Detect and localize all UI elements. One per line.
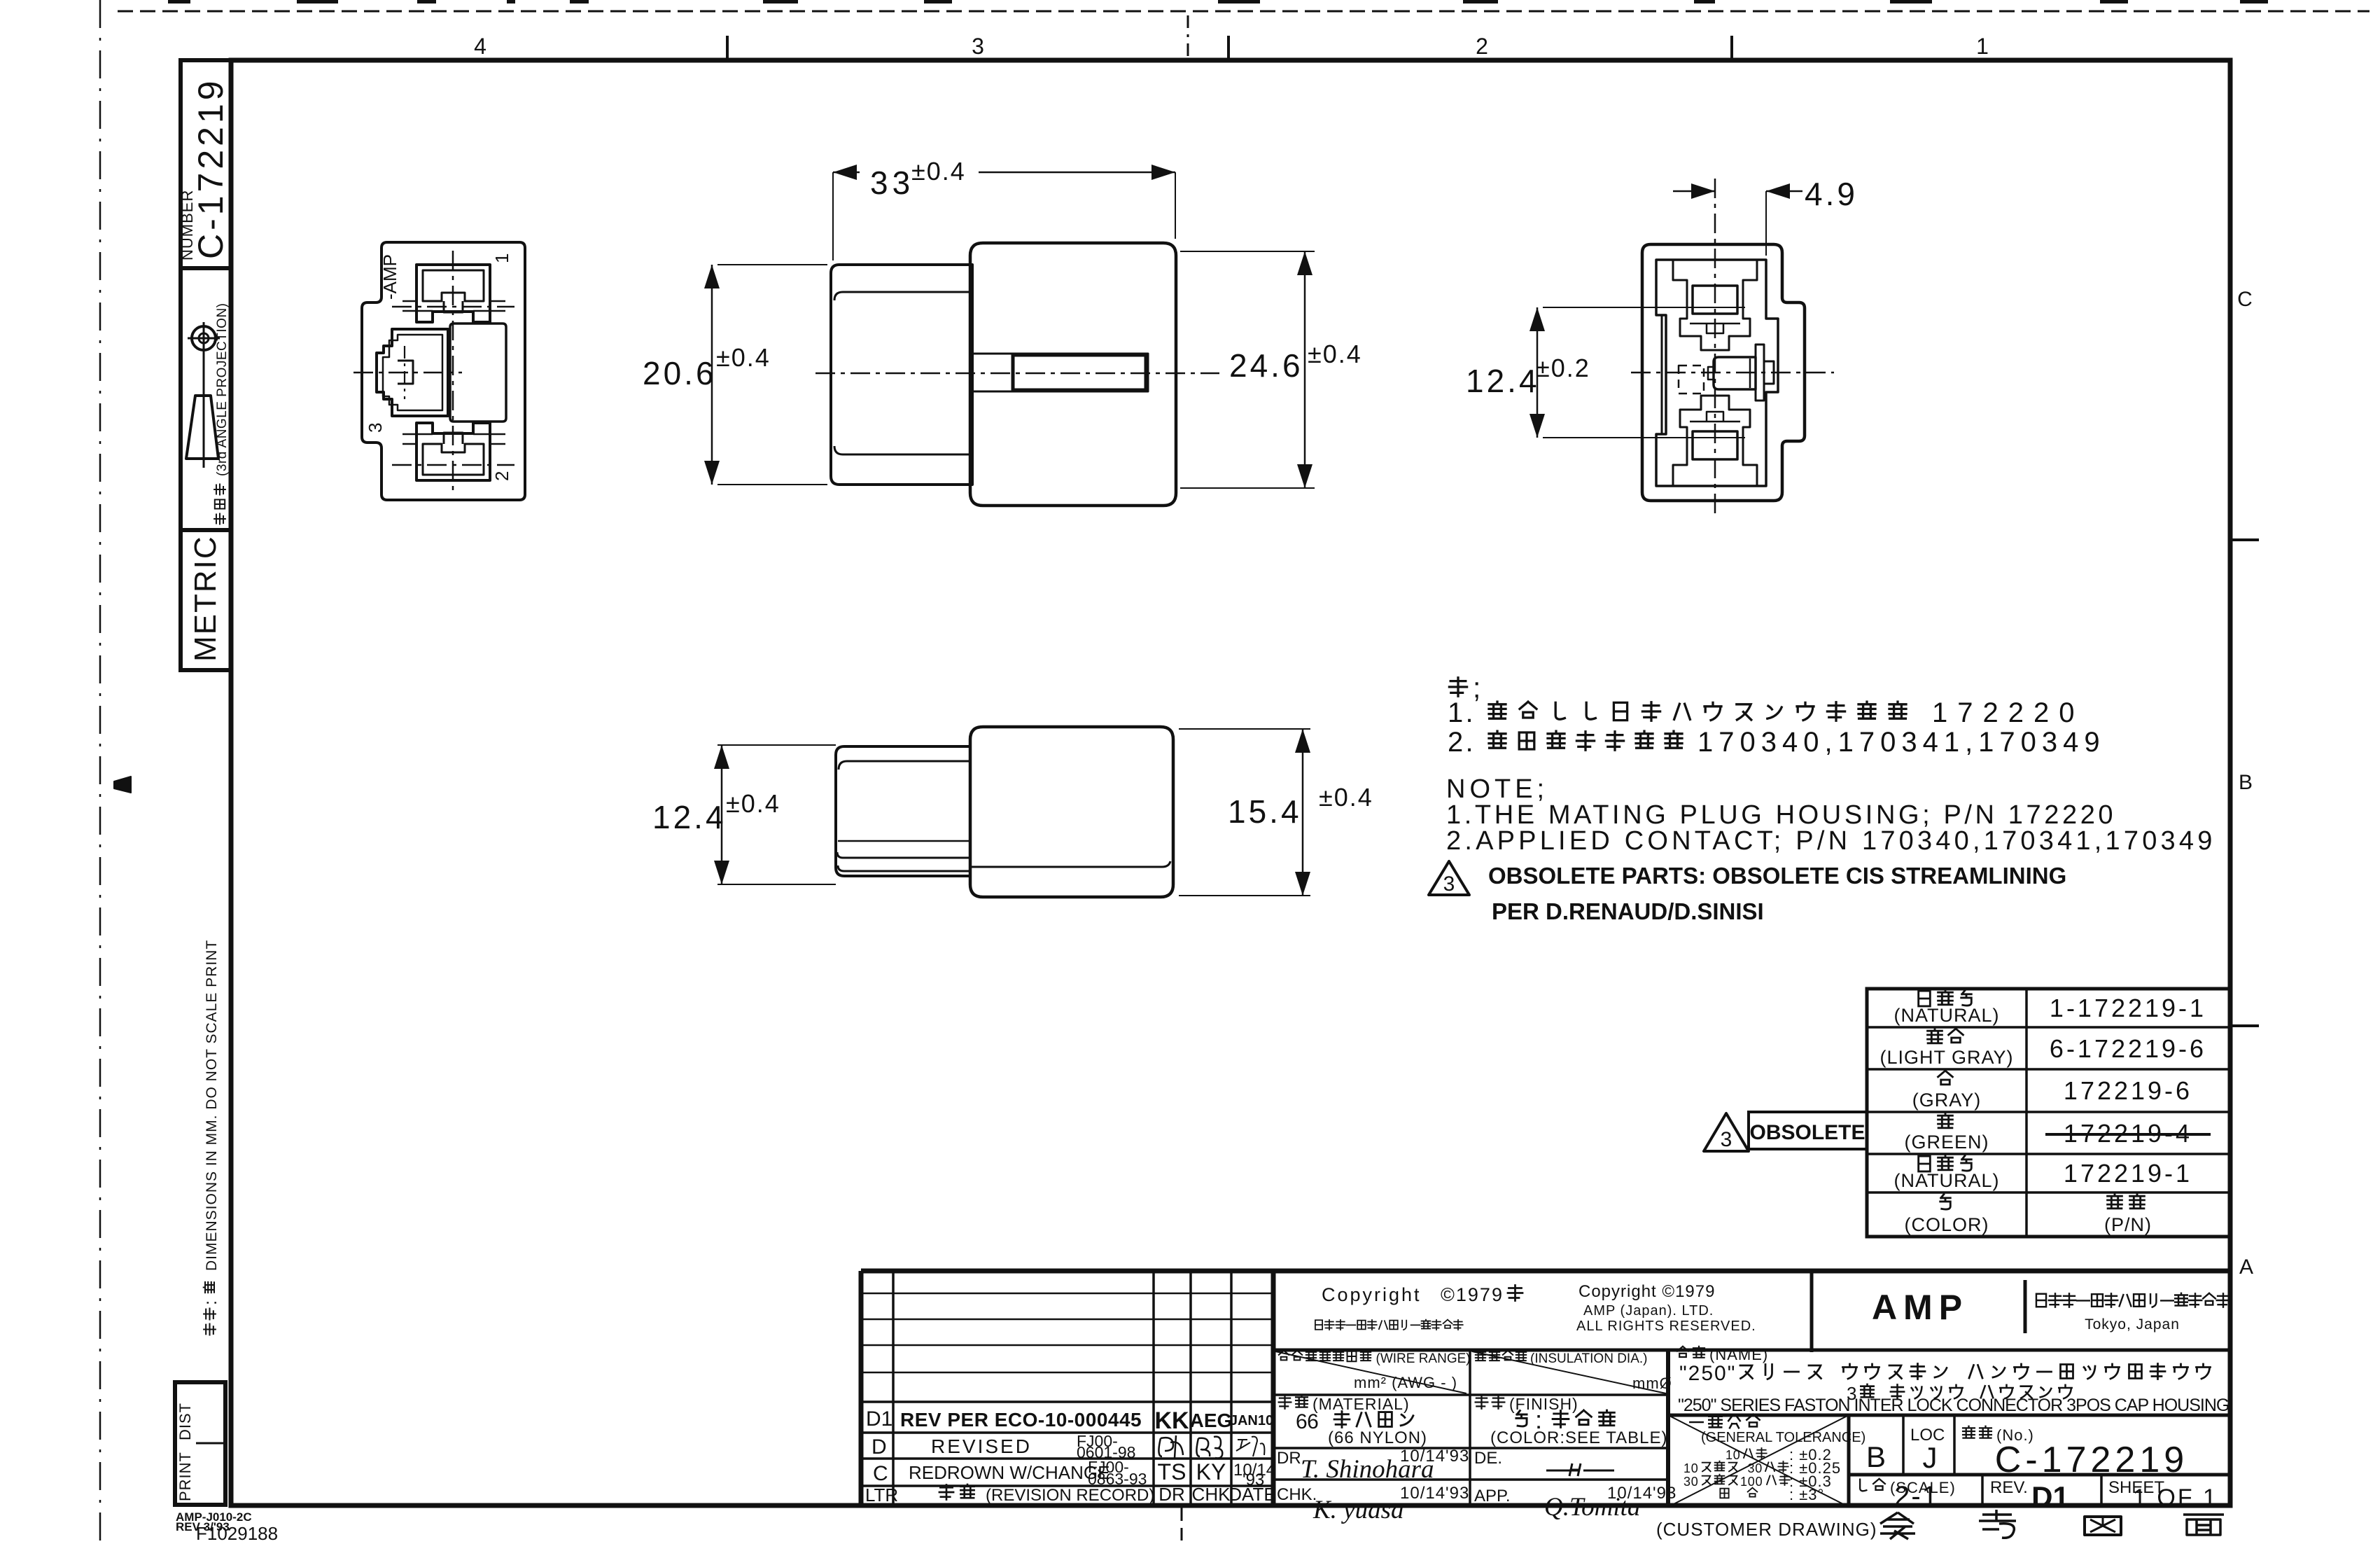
- svg-text:12.4: 12.4: [1466, 363, 1540, 399]
- amp logo box: [1810, 1271, 1814, 1352]
- svg-text:172219-1: 172219-1: [2064, 1159, 2192, 1188]
- svg-text:AMP: AMP: [1872, 1288, 1968, 1327]
- svg-text:66: 66: [1296, 1410, 1318, 1433]
- svg-text:F1029188: F1029188: [196, 1523, 278, 1540]
- svg-text:±0.4: ±0.4: [911, 157, 966, 186]
- scale row: [1981, 1475, 1984, 1507]
- svg-text:DATE: DATE: [1228, 1484, 1275, 1505]
- svg-text:AMP (Japan). LTD.: AMP (Japan). LTD.: [1583, 1303, 1714, 1319]
- svg-text:CHK: CHK: [1192, 1484, 1231, 1505]
- svg-text:K. yuasa: K. yuasa: [1312, 1496, 1404, 1524]
- svg-text:170340,170341,170349: 170340,170341,170349: [1697, 727, 2106, 758]
- svg-text:DE.: DE.: [1474, 1449, 1502, 1468]
- svg-text:±0.4: ±0.4: [1308, 340, 1362, 368]
- color table row (GREEN) 172219-4: [1938, 1113, 1953, 1128]
- svg-text:ALL RIGHTS RESERVED.: ALL RIGHTS RESERVED.: [1576, 1319, 1756, 1334]
- projection text: [214, 303, 230, 524]
- side view latch slot: [972, 354, 1148, 391]
- left margin dash-dot line: [99, 0, 101, 1540]
- front view inner wall rect: [450, 324, 506, 422]
- svg-text:30: 30: [1747, 1461, 1763, 1475]
- svg-text:20.6: 20.6: [643, 355, 717, 391]
- kanji kou (consider): [1979, 1510, 2016, 1538]
- end view outer body: [1642, 244, 1805, 501]
- svg-text:C: C: [873, 1462, 888, 1485]
- dimensions-in-mm text: [201, 940, 220, 1335]
- front view cavity 1 (top): [416, 265, 490, 322]
- obsolete note triangle: [1429, 861, 1469, 895]
- side view rear cap block: [831, 265, 972, 485]
- note japanese header: [1449, 678, 1466, 696]
- end view inner outline: [1656, 260, 1778, 486]
- bottom view cap block: [836, 746, 970, 876]
- svg-text:C-172219: C-172219: [1995, 1440, 2188, 1480]
- svg-text:±0.2: ±0.2: [1536, 354, 1590, 382]
- svg-text:DIMENSIONS IN MM. DO NOT SCAL: DIMENSIONS IN MM. DO NOT SCALE PRINT: [204, 940, 220, 1271]
- svg-text:12.4: 12.4: [652, 799, 727, 835]
- svg-text:JAN10: JAN10: [1230, 1413, 1273, 1428]
- amp logo jp separator: [2024, 1280, 2027, 1333]
- svg-text:REVISED: REVISED: [931, 1435, 1032, 1457]
- svg-text:Tokyo, Japan: Tokyo, Japan: [2085, 1316, 2180, 1333]
- third angle projection box: [181, 268, 231, 530]
- svg-text:2.APPLIED CONTACT; P/N 170340,: 2.APPLIED CONTACT; P/N 170340,170341,170…: [1446, 826, 2216, 856]
- svg-text:KY: KY: [1196, 1459, 1226, 1484]
- svg-text:AEG: AEG: [1190, 1410, 1233, 1431]
- front view cavity 2 (bottom, mirror of cavity 1): [402, 423, 505, 480]
- front view centerline v pin3: [404, 346, 405, 399]
- zone ticks right: [2230, 538, 2259, 541]
- svg-text:1.THE MATING PLUG HOUSING; P/N: 1.THE MATING PLUG HOUSING; P/N 172220: [1446, 800, 2116, 830]
- dim 12.4 extension lines: [1543, 307, 1745, 308]
- svg-text:3: 3: [972, 34, 984, 59]
- svg-text:T. Shinohara: T. Shinohara: [1301, 1455, 1434, 1484]
- svg-text:2-1: 2-1: [1894, 1481, 1939, 1512]
- front view centerline h mid: [353, 372, 462, 374]
- dim 33 text: [860, 155, 979, 196]
- front view cavity 3 (mid-left): [377, 329, 448, 416]
- end view left wall line: [1661, 315, 1663, 434]
- side view housing block: [970, 243, 1176, 506]
- svg-text:(3rd ANGLE PROJECTION): (3rd ANGLE PROJECTION): [215, 303, 230, 477]
- svg-text:4: 4: [474, 34, 486, 59]
- svg-text:172219-6: 172219-6: [2064, 1076, 2192, 1105]
- revision row D signatures: [1158, 1435, 1183, 1458]
- svg-text:1.: 1.: [1448, 697, 1476, 728]
- print dist box: [175, 1382, 225, 1505]
- finish cell: [1476, 1396, 1488, 1408]
- dim 20.6 extension lines: [717, 264, 827, 265]
- svg-text:DIST: DIST: [176, 1403, 194, 1440]
- svg-text:"250" SERIES FASTON INTER LOCK: "250" SERIES FASTON INTER LOCK CONNECTOR…: [1678, 1396, 2229, 1415]
- dim 4.9 extension line: [1765, 191, 1767, 256]
- svg-text:±0.4: ±0.4: [1319, 783, 1373, 812]
- svg-text:4.9: 4.9: [1805, 176, 1858, 212]
- name box bottom: [1668, 1414, 2230, 1417]
- svg-text:(CUSTOMER DRAWING): (CUSTOMER DRAWING): [1656, 1519, 1877, 1540]
- sheet frame border: [231, 60, 2230, 1505]
- svg-text:(LIGHT GRAY): (LIGHT GRAY): [1879, 1047, 2013, 1068]
- svg-text:B: B: [1866, 1440, 1886, 1473]
- svg-text:PRINT: PRINT: [176, 1452, 194, 1501]
- svg-text:REV PER ECO-10-000445: REV PER ECO-10-000445: [900, 1409, 1142, 1431]
- end view dashed box: [1679, 366, 1704, 394]
- svg-text:REV.: REV.: [1990, 1478, 2028, 1497]
- svg-text:(GENERAL TOLERANCE): (GENERAL TOLERANCE): [1701, 1430, 1865, 1445]
- svg-text:C-172219: C-172219: [191, 77, 230, 259]
- obsolete pointer triangle: [1704, 1113, 1749, 1151]
- dim b12.4 extension lines: [717, 744, 836, 746]
- dim 33 extension lines: [832, 172, 834, 260]
- kanji men box (sheet): [2183, 1515, 2224, 1535]
- svg-text:APP.: APP.: [1474, 1487, 1511, 1505]
- svg-text:J: J: [1923, 1441, 1938, 1474]
- dim 24.6 extension lines: [1180, 251, 1315, 252]
- svg-text:(REVISION RECORD): (REVISION RECORD): [986, 1486, 1154, 1505]
- svg-text:1-172219-1: 1-172219-1: [2050, 994, 2206, 1022]
- svg-text:2.: 2.: [1448, 727, 1476, 758]
- name box: [1677, 1347, 1688, 1357]
- svg-text:(INSULATION DIA.): (INSULATION DIA.): [1530, 1351, 1648, 1366]
- svg-text:(WIRE RANGE): (WIRE RANGE): [1376, 1351, 1471, 1366]
- svg-text:15.4: 15.4: [1228, 793, 1302, 830]
- dim 4.9 arrows: [1673, 190, 1715, 193]
- svg-text:D1: D1: [2031, 1480, 2069, 1513]
- svg-text:1: 1: [491, 253, 512, 263]
- dim 24.6 line: [1304, 251, 1306, 488]
- side view cap inner top line: [834, 292, 972, 300]
- svg-text:±0.4: ±0.4: [716, 343, 771, 372]
- svg-text:100: 100: [1740, 1475, 1763, 1489]
- svg-text:D1: D1: [866, 1407, 892, 1431]
- svg-text:A: A: [2239, 1256, 2253, 1279]
- kanji zu box (drawing): [2085, 1517, 2121, 1535]
- end view centerline vertical: [1714, 179, 1716, 515]
- material cell: [1273, 1447, 1668, 1449]
- svg-text:(NATURAL): (NATURAL): [1893, 1170, 1999, 1191]
- svg-text:B: B: [2239, 771, 2253, 794]
- bottom center mark: [1181, 1507, 1183, 1540]
- projection symbol: [192, 326, 216, 350]
- color table row (NATURAL) 172219-1: [1919, 1156, 1931, 1171]
- color table row (LIGHT GRAY) 6-172219-6: [1928, 1029, 1942, 1043]
- svg-text:(NATURAL): (NATURAL): [1893, 1005, 1999, 1026]
- amp company name jp: [2036, 1294, 2046, 1307]
- svg-text:10: 10: [1725, 1448, 1741, 1462]
- title block outer: [859, 1271, 864, 1505]
- svg-text:10: 10: [1683, 1461, 1699, 1475]
- dim 15.4 line: [1302, 729, 1304, 896]
- svg-text:DR: DR: [1158, 1484, 1185, 1505]
- svg-text:2: 2: [1476, 34, 1488, 59]
- svg-text:NOTE;: NOTE;: [1446, 774, 1548, 804]
- dim b12.4 line: [721, 745, 723, 884]
- svg-text:1 OF 1: 1 OF 1: [2133, 1484, 2218, 1511]
- svg-text:6-172219-6: 6-172219-6: [2050, 1034, 2206, 1063]
- front view centerline vertical: [452, 251, 454, 492]
- svg-text:172220: 172220: [1932, 697, 2084, 728]
- svg-text:(MATERIAL): (MATERIAL): [1312, 1395, 1410, 1413]
- left margin marker triangle: [114, 777, 131, 793]
- svg-text:24.6: 24.6: [1229, 347, 1303, 384]
- svg-text:±0.4: ±0.4: [726, 789, 780, 818]
- svg-text:(COLOR): (COLOR): [1905, 1214, 1989, 1235]
- dr row: [1273, 1478, 1668, 1481]
- color table row (GRAY) 172219-6: [1938, 1071, 1953, 1085]
- metric box: [181, 530, 231, 670]
- svg-text:10/14'93: 10/14'93: [1400, 1484, 1469, 1503]
- zone ticks top: [726, 36, 729, 60]
- front view centerline h top: [392, 306, 514, 308]
- svg-text:(P/N): (P/N): [2104, 1214, 2152, 1235]
- dim 33 line: [833, 172, 1175, 174]
- svg-text:OBSOLETE PARTS: OBSOLETE CIS S: OBSOLETE PARTS: OBSOLETE CIS STREAMLININ…: [1488, 863, 2066, 889]
- svg-text:3: 3: [1721, 1128, 1732, 1151]
- svg-text:D: D: [871, 1435, 887, 1459]
- svg-text:3: 3: [1443, 872, 1455, 896]
- end view bottom cavity: [1673, 396, 1757, 486]
- svg-text:Copyright: Copyright: [1322, 1284, 1422, 1305]
- svg-text::: :: [201, 1300, 220, 1305]
- number box: [181, 60, 231, 268]
- insulation cell: [1476, 1351, 1485, 1361]
- color table grid: [1867, 989, 2230, 1237]
- top center mark: [1187, 15, 1189, 59]
- svg-text:mmØ: mmØ: [1632, 1375, 1672, 1392]
- svg-text:CHK.: CHK.: [1277, 1485, 1317, 1504]
- side view cap inner bottom line: [834, 446, 972, 454]
- svg-text:TS: TS: [1158, 1459, 1186, 1484]
- color table row (NATURAL) 1-172219-1: [1919, 991, 1931, 1006]
- svg-text:3: 3: [365, 423, 386, 433]
- svg-text:LTR: LTR: [865, 1484, 898, 1505]
- end view top cavity: [1673, 260, 1757, 350]
- front view outer body: [362, 242, 525, 500]
- svg-text:(GREEN): (GREEN): [1905, 1132, 1989, 1153]
- tolerance box: [1667, 1415, 1670, 1507]
- revision table blank row lines: [861, 1293, 1273, 1295]
- loc cells: [1849, 1473, 2230, 1477]
- svg-text:(COLOR:SEE TABLE): (COLOR:SEE TABLE): [1490, 1428, 1668, 1447]
- svg-text:(GRAY): (GRAY): [1912, 1090, 1982, 1111]
- top margin dashed line: [118, 11, 2369, 13]
- top edge scan dashes: [168, 0, 190, 4]
- color table row (COLOR) P/N: [1940, 1195, 1951, 1209]
- svg-text:-AMP: -AMP: [379, 254, 400, 300]
- dim 12.4 line: [1536, 307, 1539, 438]
- svg-text:2: 2: [491, 471, 512, 481]
- end view middle pin: [1714, 357, 1756, 389]
- end view centerline horizontal: [1631, 372, 1834, 374]
- bottom view cap layer lines: [839, 761, 970, 770]
- revision table data row lines: [861, 1400, 1273, 1403]
- bottom view housing inner line: [970, 861, 1170, 867]
- svg-text:PER D.RENAUD/D.SINISI: PER D.RENAUD/D.SINISI: [1492, 898, 1764, 924]
- dim 15.4 extension lines: [1179, 728, 1310, 730]
- svg-text:KK: KK: [1154, 1407, 1189, 1434]
- kanji san (reference): [1880, 1512, 1915, 1539]
- svg-text:(66 NYLON): (66 NYLON): [1328, 1428, 1427, 1447]
- side view centerline: [815, 373, 1219, 375]
- svg-text:1: 1: [1976, 34, 1989, 59]
- svg-text:(NAME): (NAME): [1709, 1346, 1768, 1363]
- svg-text:30: 30: [1683, 1475, 1699, 1489]
- svg-text:Q.Tomita: Q.Tomita: [1544, 1493, 1640, 1522]
- front view centerline h bottom: [392, 464, 514, 466]
- revision table verticals: [892, 1271, 895, 1505]
- svg-text:©1979: ©1979: [1441, 1284, 1504, 1305]
- svg-text:Copyright ©1979: Copyright ©1979: [1578, 1282, 1715, 1301]
- wire range cell: [1273, 1393, 1668, 1396]
- svg-text:C: C: [2237, 288, 2253, 311]
- svg-text:METRIC: METRIC: [188, 535, 223, 662]
- dim 20.6 line: [711, 265, 713, 485]
- obsolete pointer box: [1749, 1112, 1867, 1149]
- svg-text:REDROWN W/CHANGE: REDROWN W/CHANGE: [909, 1462, 1109, 1483]
- svg-text:33: 33: [870, 165, 914, 201]
- copyright box divider: [1273, 1349, 2230, 1352]
- bottom view housing block: [970, 727, 1173, 897]
- svg-text:: ±3°: : ±3°: [1789, 1486, 1824, 1503]
- svg-text:"250": "250": [1679, 1362, 1736, 1385]
- svg-text:OBSOLETE: OBSOLETE: [1749, 1121, 1865, 1144]
